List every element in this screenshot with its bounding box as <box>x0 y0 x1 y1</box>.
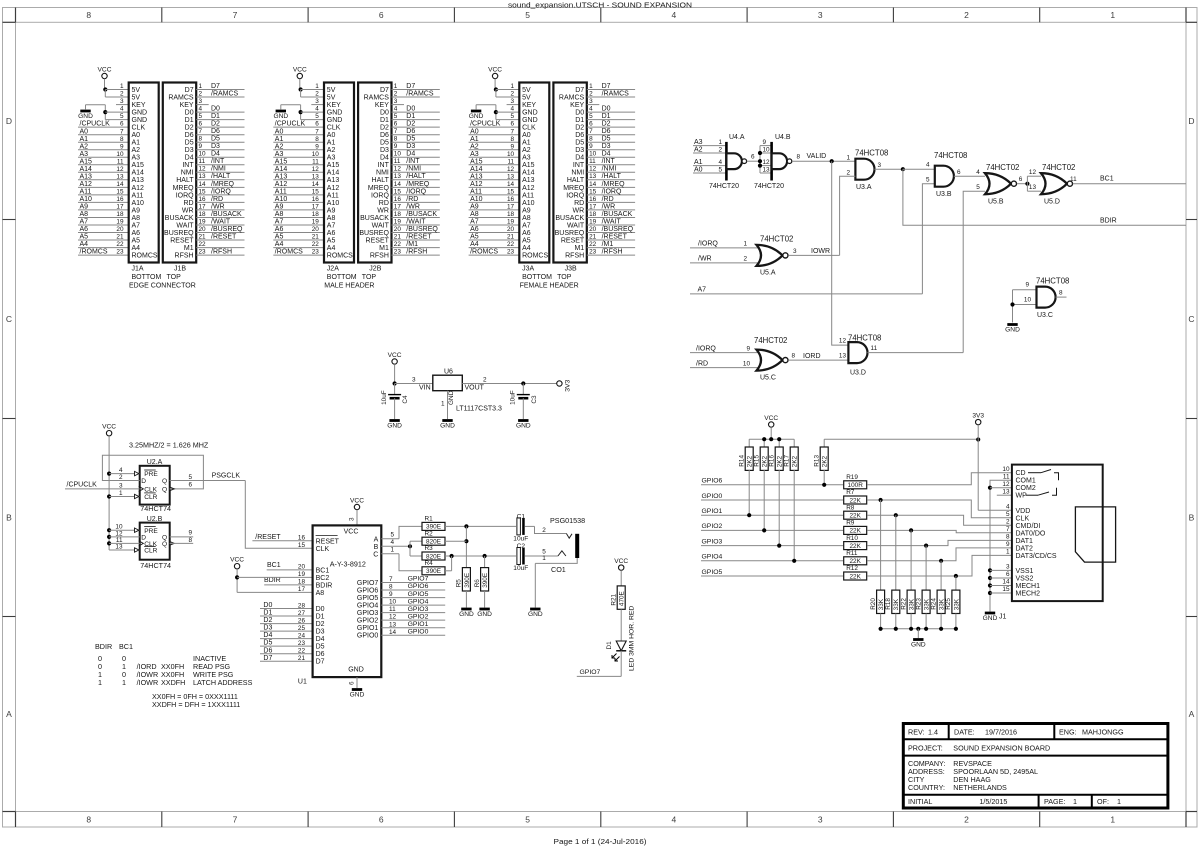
svg-text:BOTTOM: BOTTOM <box>522 274 552 281</box>
svg-text:7: 7 <box>511 128 515 135</box>
svg-text:6: 6 <box>394 121 398 128</box>
svg-text:GND: GND <box>440 423 455 430</box>
svg-text:VCC: VCC <box>388 352 402 359</box>
svg-text:3: 3 <box>119 482 123 489</box>
svg-text:A4: A4 <box>522 245 531 252</box>
svg-text:A5: A5 <box>470 234 479 241</box>
svg-text:/IOWR: /IOWR <box>137 678 159 687</box>
svg-text:D0: D0 <box>316 606 325 613</box>
svg-text:1: 1 <box>743 241 747 248</box>
svg-text:GPIO1: GPIO1 <box>702 508 723 515</box>
svg-text:D5: D5 <box>185 140 194 147</box>
svg-text:CLK: CLK <box>144 487 157 494</box>
svg-text:D: D <box>6 116 12 126</box>
svg-text:A13: A13 <box>132 177 145 184</box>
svg-text:7: 7 <box>233 10 238 20</box>
svg-text:A1: A1 <box>80 136 89 143</box>
svg-text:XXDFH: XXDFH <box>161 678 185 687</box>
svg-text:BUSACK: BUSACK <box>555 215 584 222</box>
svg-text:GPIO4: GPIO4 <box>408 598 429 605</box>
svg-text:A4: A4 <box>132 245 141 252</box>
svg-text:A6: A6 <box>327 230 336 237</box>
svg-text:12: 12 <box>389 614 397 621</box>
svg-text:17: 17 <box>312 204 320 211</box>
svg-text:16: 16 <box>116 196 124 203</box>
svg-text:A12: A12 <box>327 185 340 192</box>
svg-text:22K: 22K <box>850 543 862 550</box>
svg-text:XXDFH = DFH = 1XXX1111: XXDFH = DFH = 1XXX1111 <box>152 700 240 709</box>
svg-text:RESET: RESET <box>316 538 340 545</box>
svg-text:5V: 5V <box>132 94 141 101</box>
svg-text:VCC: VCC <box>344 529 359 536</box>
svg-text:Page 1 of 1 (24-Jul-2016): Page 1 of 1 (24-Jul-2016) <box>554 837 647 846</box>
svg-text:/IORQ: /IORQ <box>406 188 426 195</box>
svg-text:A13: A13 <box>327 177 340 184</box>
svg-text:RD: RD <box>379 200 389 207</box>
svg-text:WR: WR <box>573 207 585 214</box>
svg-text:18: 18 <box>589 211 597 218</box>
svg-text:D6: D6 <box>406 128 415 135</box>
svg-text:5V: 5V <box>327 94 336 101</box>
svg-text:10uF: 10uF <box>510 390 517 405</box>
svg-text:1: 1 <box>98 678 102 687</box>
svg-text:A7: A7 <box>327 222 336 229</box>
svg-text:LATCH ADDRESS: LATCH ADDRESS <box>193 678 253 687</box>
svg-text:22K: 22K <box>850 558 862 565</box>
svg-text:5: 5 <box>525 10 530 20</box>
svg-text:U5.B: U5.B <box>988 199 1004 206</box>
svg-text:A1: A1 <box>327 140 336 147</box>
svg-text:D3: D3 <box>211 143 220 150</box>
svg-text:16: 16 <box>507 196 515 203</box>
svg-text:5: 5 <box>199 113 203 120</box>
svg-text:15: 15 <box>589 188 597 195</box>
svg-text:A10: A10 <box>522 200 535 207</box>
svg-text:RFSH: RFSH <box>370 253 389 260</box>
svg-text:D3: D3 <box>406 143 415 150</box>
svg-text:1: 1 <box>119 490 123 497</box>
svg-text:9: 9 <box>389 591 393 598</box>
svg-text:D6: D6 <box>602 128 611 135</box>
svg-text:/HALT: /HALT <box>211 173 231 180</box>
svg-text:470E: 470E <box>619 591 626 606</box>
svg-text:/NMI: /NMI <box>406 166 421 173</box>
svg-text:20: 20 <box>312 226 320 233</box>
svg-text:GPIO2: GPIO2 <box>408 613 429 620</box>
svg-text:D2: D2 <box>263 617 272 624</box>
svg-text:12: 12 <box>763 159 771 166</box>
svg-text:NMI: NMI <box>571 170 584 177</box>
svg-text:/INT: /INT <box>211 158 225 165</box>
svg-text:A1: A1 <box>694 159 703 166</box>
svg-text:/BUSACK: /BUSACK <box>211 211 242 218</box>
svg-text:1: 1 <box>1110 10 1115 20</box>
svg-text:19/7/2016: 19/7/2016 <box>985 728 1017 737</box>
svg-text:GPIO6: GPIO6 <box>702 478 723 485</box>
svg-text:11: 11 <box>389 606 396 613</box>
svg-text:20: 20 <box>298 564 306 571</box>
svg-text:/ROMCS: /ROMCS <box>275 249 303 256</box>
svg-text:A11: A11 <box>132 192 144 199</box>
svg-text:GND: GND <box>350 692 365 699</box>
svg-text:/INT: /INT <box>406 158 420 165</box>
svg-text:18: 18 <box>199 211 207 218</box>
svg-text:33K: 33K <box>953 598 960 610</box>
svg-text:19: 19 <box>199 218 207 225</box>
svg-text:D5: D5 <box>211 136 220 143</box>
svg-text:10: 10 <box>394 151 402 158</box>
svg-text:A5: A5 <box>522 237 531 244</box>
svg-text:PRE: PRE <box>144 528 158 535</box>
svg-text:KEY: KEY <box>570 102 584 109</box>
svg-text:19: 19 <box>312 219 320 226</box>
svg-text:WR: WR <box>377 207 389 214</box>
svg-text:A2: A2 <box>275 143 284 150</box>
svg-text:13: 13 <box>839 353 847 360</box>
svg-text:VSS2: VSS2 <box>1016 576 1034 583</box>
svg-text:A3: A3 <box>327 155 336 162</box>
svg-text:R4: R4 <box>425 560 434 567</box>
svg-text:6: 6 <box>589 121 593 128</box>
svg-text:13: 13 <box>312 173 320 180</box>
svg-text:D2: D2 <box>185 125 194 132</box>
svg-text:A13: A13 <box>80 173 93 180</box>
svg-text:10uF: 10uF <box>513 536 528 543</box>
svg-text:/NMI: /NMI <box>211 166 226 173</box>
svg-text:TOP: TOP <box>167 274 182 281</box>
svg-text:VOUT: VOUT <box>465 385 485 392</box>
svg-text:1: 1 <box>589 83 593 90</box>
svg-text:74HCT74: 74HCT74 <box>140 504 171 513</box>
svg-text:D6: D6 <box>316 651 325 658</box>
svg-text:A: A <box>374 536 379 543</box>
svg-text:A9: A9 <box>80 204 89 211</box>
svg-text:20: 20 <box>589 226 597 233</box>
svg-text:8: 8 <box>589 136 593 143</box>
svg-text:R10: R10 <box>846 535 858 542</box>
svg-text:A6: A6 <box>522 230 531 237</box>
svg-text:A7: A7 <box>470 219 479 226</box>
svg-text:390E: 390E <box>464 573 471 588</box>
svg-text:REV:: REV: <box>908 728 925 737</box>
svg-text:D5: D5 <box>380 140 389 147</box>
svg-text:21: 21 <box>199 233 207 240</box>
svg-text:D2: D2 <box>211 121 220 128</box>
svg-text:22K: 22K <box>850 528 862 535</box>
svg-text:/WR: /WR <box>211 203 225 210</box>
svg-text:RD: RD <box>574 200 584 207</box>
svg-text:D2: D2 <box>316 621 325 628</box>
svg-text:Q: Q <box>162 541 167 548</box>
svg-text:VDD: VDD <box>1016 508 1031 515</box>
svg-text:BC2: BC2 <box>316 575 330 582</box>
svg-text:INT: INT <box>573 162 585 169</box>
svg-text:/WAIT: /WAIT <box>602 218 622 225</box>
svg-text:/CPUCLK: /CPUCLK <box>470 121 501 128</box>
svg-text:C3: C3 <box>531 395 538 404</box>
svg-text:D0: D0 <box>185 110 194 117</box>
svg-text:D2: D2 <box>380 125 389 132</box>
svg-text:/HALT: /HALT <box>602 173 622 180</box>
svg-text:VCC: VCC <box>614 558 628 565</box>
svg-text:11: 11 <box>117 158 124 165</box>
svg-text:A: A <box>6 709 12 719</box>
svg-text:74HCT20: 74HCT20 <box>754 183 784 190</box>
svg-text:D5: D5 <box>575 140 584 147</box>
svg-text:3: 3 <box>315 98 319 105</box>
svg-text:390E: 390E <box>426 568 441 575</box>
svg-text:12: 12 <box>1029 169 1037 176</box>
svg-text:25: 25 <box>298 625 306 632</box>
svg-text:A3: A3 <box>522 155 531 162</box>
svg-text:KEY: KEY <box>327 102 341 109</box>
svg-text:15: 15 <box>298 542 306 549</box>
svg-text:RFSH: RFSH <box>565 253 584 260</box>
svg-text:A8: A8 <box>132 215 141 222</box>
svg-text:2: 2 <box>394 90 398 97</box>
svg-text:/RFSH: /RFSH <box>211 249 232 256</box>
svg-text:8: 8 <box>188 537 192 544</box>
svg-text:10: 10 <box>1024 296 1032 303</box>
svg-text:HALT: HALT <box>567 177 585 184</box>
svg-text:12: 12 <box>839 338 847 345</box>
svg-text:1: 1 <box>511 83 515 90</box>
svg-text:5: 5 <box>511 113 515 120</box>
svg-text:U5.D: U5.D <box>1044 199 1060 206</box>
svg-text:21: 21 <box>394 233 402 240</box>
svg-text:A6: A6 <box>80 226 89 233</box>
svg-text:LED 3MM HOR. RED: LED 3MM HOR. RED <box>629 606 636 671</box>
svg-text:33K: 33K <box>878 598 885 610</box>
svg-text:D4: D4 <box>185 155 194 162</box>
svg-text:A8: A8 <box>275 211 284 218</box>
svg-text:/RAMCS: /RAMCS <box>602 90 630 97</box>
svg-text:4: 4 <box>120 106 124 113</box>
svg-text:3: 3 <box>793 248 797 255</box>
svg-text:SOUND EXPANSION BOARD: SOUND EXPANSION BOARD <box>953 744 1050 753</box>
svg-text:CO1: CO1 <box>551 565 566 574</box>
svg-text:/BUSREQ: /BUSREQ <box>406 226 438 233</box>
svg-text:A7: A7 <box>80 219 89 226</box>
svg-text:D1: D1 <box>406 113 415 120</box>
svg-text:DAT0/DO: DAT0/DO <box>1016 530 1046 537</box>
svg-text:A6: A6 <box>470 226 479 233</box>
svg-text:BDIR: BDIR <box>264 577 281 584</box>
svg-text:DATE:: DATE: <box>954 728 975 737</box>
svg-text:A14: A14 <box>132 170 145 177</box>
svg-text:19: 19 <box>394 218 402 225</box>
svg-text:D: D <box>141 478 146 485</box>
svg-text:VCC: VCC <box>98 67 112 74</box>
svg-text:ROMCS: ROMCS <box>522 253 548 260</box>
svg-text:14: 14 <box>589 181 597 188</box>
svg-text:A0: A0 <box>80 128 89 135</box>
svg-text:23: 23 <box>199 249 207 256</box>
svg-text:1: 1 <box>315 83 319 90</box>
svg-text:A13: A13 <box>470 173 483 180</box>
svg-text:16: 16 <box>589 196 597 203</box>
svg-text:6: 6 <box>751 154 755 161</box>
svg-text:U4.B: U4.B <box>775 134 791 141</box>
svg-text:A12: A12 <box>522 185 535 192</box>
svg-text:/IORQ: /IORQ <box>696 345 716 352</box>
svg-text:LT1117CST3.3: LT1117CST3.3 <box>456 406 502 413</box>
svg-text:/MREQ: /MREQ <box>211 181 235 188</box>
svg-text:9: 9 <box>1006 541 1010 548</box>
svg-text:D0: D0 <box>575 110 584 117</box>
svg-text:A9: A9 <box>275 204 284 211</box>
svg-text:D6: D6 <box>575 132 584 139</box>
svg-text:17: 17 <box>116 204 124 211</box>
svg-text:2: 2 <box>542 527 546 534</box>
svg-text:BC1: BC1 <box>119 642 133 651</box>
svg-text:22: 22 <box>507 241 515 248</box>
svg-text:CLR: CLR <box>144 494 157 501</box>
svg-text:15: 15 <box>394 188 402 195</box>
svg-text:A4: A4 <box>275 241 284 248</box>
svg-text:/WR: /WR <box>406 203 420 210</box>
svg-text:1: 1 <box>1073 797 1077 806</box>
svg-text:A10: A10 <box>80 196 93 203</box>
svg-text:U5.A: U5.A <box>760 270 776 277</box>
svg-text:6: 6 <box>379 10 384 20</box>
svg-text:5: 5 <box>926 177 930 184</box>
svg-text:6: 6 <box>511 121 515 128</box>
svg-text:1: 1 <box>390 546 394 553</box>
svg-text:A7: A7 <box>132 222 141 229</box>
svg-text:A0: A0 <box>694 166 703 173</box>
svg-text:/NMI: /NMI <box>602 166 617 173</box>
svg-text:12: 12 <box>199 166 207 173</box>
svg-text:4: 4 <box>672 815 677 825</box>
svg-text:14: 14 <box>1002 579 1010 586</box>
svg-text:A2: A2 <box>327 147 336 154</box>
svg-text:74HCT08: 74HCT08 <box>934 151 967 160</box>
svg-text:20: 20 <box>199 226 207 233</box>
svg-text:14: 14 <box>389 629 397 636</box>
svg-text:GPIO5: GPIO5 <box>408 591 429 598</box>
svg-text:D0: D0 <box>211 106 220 113</box>
svg-text:22: 22 <box>312 241 320 248</box>
svg-text:21: 21 <box>298 655 306 662</box>
svg-text:A9: A9 <box>132 207 141 214</box>
svg-text:11: 11 <box>871 345 878 352</box>
svg-text:5: 5 <box>394 113 398 120</box>
svg-text:MECH2: MECH2 <box>1016 591 1041 598</box>
svg-text:U1: U1 <box>298 679 307 686</box>
svg-text:WR: WR <box>182 207 194 214</box>
svg-text:/RFSH: /RFSH <box>406 249 427 256</box>
svg-text:INT: INT <box>182 162 194 169</box>
svg-text:J3B: J3B <box>565 266 577 273</box>
svg-text:KEY: KEY <box>180 102 194 109</box>
svg-text:2: 2 <box>199 90 203 97</box>
svg-text:A2: A2 <box>470 143 479 150</box>
svg-text:1: 1 <box>1006 549 1010 556</box>
svg-text:A2: A2 <box>694 146 703 153</box>
svg-text:2: 2 <box>718 146 722 153</box>
svg-text:GPIO0: GPIO0 <box>357 633 379 640</box>
svg-text:GND: GND <box>528 611 543 618</box>
svg-text:A13: A13 <box>275 173 288 180</box>
svg-text:2: 2 <box>315 91 319 98</box>
svg-text:RAMCS: RAMCS <box>168 94 194 101</box>
svg-text:21: 21 <box>312 234 320 241</box>
svg-text:A0: A0 <box>522 132 531 139</box>
svg-text:GND: GND <box>327 110 343 117</box>
svg-text:6: 6 <box>349 681 356 685</box>
svg-text:R7: R7 <box>846 489 855 496</box>
svg-text:D3: D3 <box>602 143 611 150</box>
svg-text:R6: R6 <box>474 579 481 588</box>
svg-text:D2: D2 <box>575 125 584 132</box>
svg-text:B: B <box>1189 513 1195 523</box>
svg-text:R23: R23 <box>915 598 922 610</box>
svg-text:6: 6 <box>1006 571 1010 578</box>
svg-text:A1: A1 <box>522 140 531 147</box>
svg-text:J2B: J2B <box>369 266 381 273</box>
svg-text:D0: D0 <box>602 106 611 113</box>
svg-text:D1: D1 <box>606 641 613 650</box>
svg-text:23: 23 <box>589 249 597 256</box>
svg-text:RD: RD <box>183 200 193 207</box>
svg-text:100R: 100R <box>848 482 864 489</box>
svg-text:/BUSREQ: /BUSREQ <box>211 226 243 233</box>
svg-text:15: 15 <box>312 189 320 196</box>
svg-text:6: 6 <box>315 121 319 128</box>
svg-text:21: 21 <box>116 234 124 241</box>
svg-text:5: 5 <box>315 113 319 120</box>
svg-text:12: 12 <box>312 166 320 173</box>
svg-text:/MREQ: /MREQ <box>602 181 626 188</box>
svg-text:2: 2 <box>964 815 969 825</box>
svg-text:/M1: /M1 <box>602 241 614 248</box>
svg-text:A2: A2 <box>522 147 531 154</box>
svg-text:D5: D5 <box>406 136 415 143</box>
svg-text:1: 1 <box>199 83 203 90</box>
svg-text:A8: A8 <box>470 211 479 218</box>
svg-text:18: 18 <box>507 211 515 218</box>
svg-text:14: 14 <box>312 181 320 188</box>
svg-text:13: 13 <box>763 166 771 173</box>
svg-text:13: 13 <box>507 173 515 180</box>
svg-text:D1: D1 <box>575 117 584 124</box>
svg-text:GPIO6: GPIO6 <box>357 588 379 595</box>
svg-text:KEY: KEY <box>132 102 146 109</box>
svg-text:A15: A15 <box>275 158 288 165</box>
svg-text:A0: A0 <box>470 128 479 135</box>
svg-text:D3: D3 <box>380 147 389 154</box>
svg-text:12: 12 <box>1002 481 1010 488</box>
svg-text:4: 4 <box>589 106 593 113</box>
svg-text:A2: A2 <box>132 147 141 154</box>
svg-text:MREQ: MREQ <box>173 185 195 192</box>
svg-text:A0: A0 <box>275 128 284 135</box>
svg-text:17: 17 <box>507 204 515 211</box>
svg-text:11: 11 <box>507 158 514 165</box>
svg-text:U6: U6 <box>444 369 453 376</box>
svg-text:/WAIT: /WAIT <box>211 218 231 225</box>
svg-text:/RESET: /RESET <box>211 233 237 240</box>
svg-text:D0: D0 <box>263 602 272 609</box>
svg-text:13: 13 <box>115 543 123 550</box>
svg-text:74HCT20: 74HCT20 <box>709 183 739 190</box>
svg-text:5: 5 <box>120 113 124 120</box>
svg-text:PSGCLK: PSGCLK <box>212 473 241 480</box>
svg-text:GPIO7: GPIO7 <box>357 580 379 587</box>
svg-text:PRE: PRE <box>144 471 158 478</box>
svg-text:12: 12 <box>116 166 124 173</box>
